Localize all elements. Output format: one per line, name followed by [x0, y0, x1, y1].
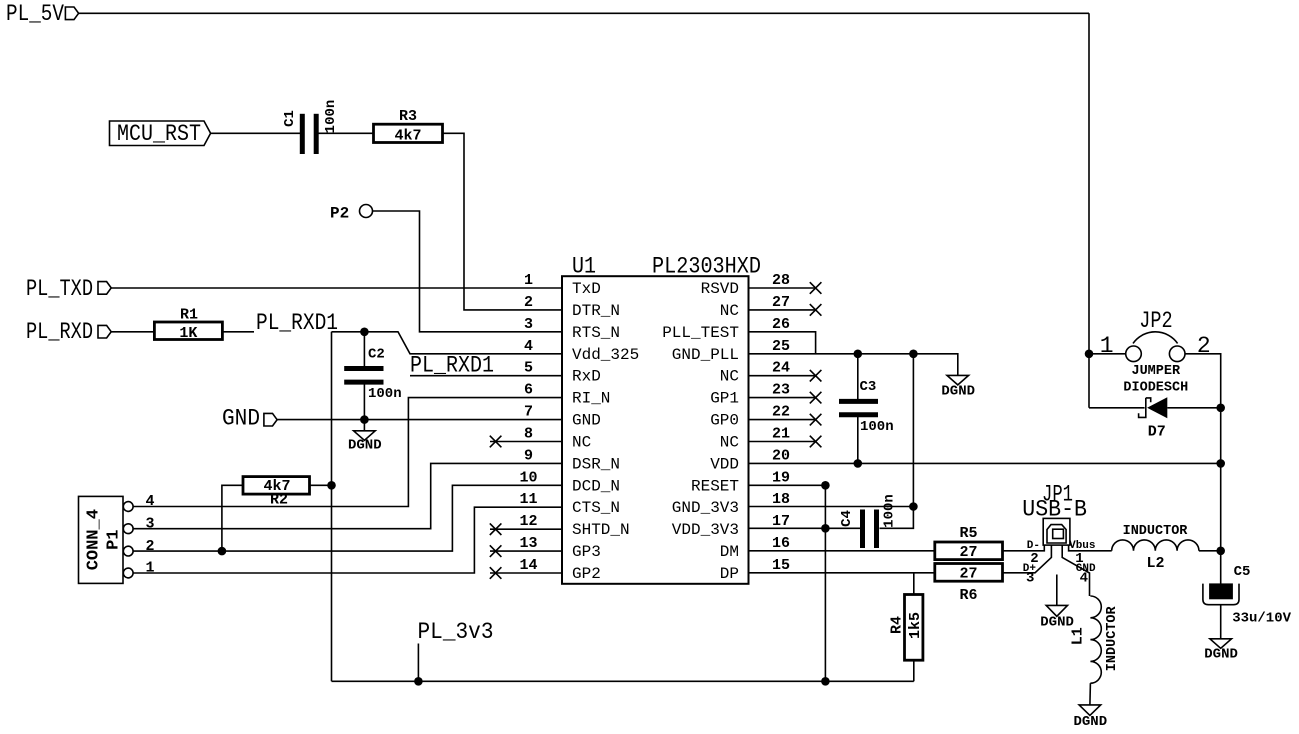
node RESET / 3v3 rail junction	[821, 677, 830, 686]
wire pin 22 stub	[749, 419, 816, 421]
pin P1-1 circle	[123, 568, 133, 578]
svg-text:DSR_N: DSR_N	[572, 455, 620, 473]
svg-text:PL_3v3: PL_3v3	[418, 619, 494, 645]
svg-text:GP3: GP3	[572, 543, 601, 561]
net flag GND	[222, 406, 277, 432]
wire pin 23 stub	[749, 397, 816, 399]
wire USB GND pin skirt	[1062, 545, 1089, 596]
node C3 top junction	[854, 350, 863, 359]
resistor R3	[374, 108, 443, 145]
svg-text:PL_RXD: PL_RXD	[26, 319, 93, 345]
svg-text:GND_PLL: GND_PLL	[672, 346, 739, 364]
svg-text:TxD: TxD	[572, 280, 601, 298]
inductor L1	[1070, 596, 1120, 683]
svg-text:C3: C3	[860, 379, 877, 395]
node PL_5V / JP2 pin1 junction	[1085, 350, 1094, 359]
svg-text:R6: R6	[959, 587, 977, 604]
wire L1 to DGND	[1089, 683, 1092, 705]
connector P1 CONN_4	[79, 496, 124, 583]
svg-text:NC: NC	[572, 434, 591, 452]
no-connect X pin 8	[490, 436, 502, 448]
wire PL_5V horizontal top	[79, 12, 1089, 14]
wire pin 24 stub	[749, 375, 816, 377]
svg-text:DGND: DGND	[348, 437, 382, 453]
wire bottom 3v3 rail	[332, 680, 914, 682]
capacitor C3	[839, 354, 894, 464]
svg-text:DIODESCH: DIODESCH	[1123, 380, 1188, 395]
net flag PL_TXD	[26, 276, 111, 302]
capacitor C4	[839, 494, 898, 548]
connector JP1 USB-B	[1022, 482, 1087, 546]
svg-text:R2: R2	[270, 492, 288, 509]
svg-text:23: 23	[772, 382, 790, 399]
wire R1 stub	[222, 331, 254, 333]
svg-text:14: 14	[519, 557, 537, 574]
wire RESET vertical to 3v3 rail	[824, 485, 826, 681]
ground DGND (GND_PLL)	[941, 375, 975, 399]
node C3 bottom junction	[854, 459, 863, 468]
capacitor C1	[282, 100, 339, 154]
svg-text:1k5: 1k5	[907, 612, 924, 639]
svg-text:5: 5	[524, 360, 533, 377]
wire pin 26 PLL_TEST to pin 25	[749, 332, 816, 354]
svg-text:7: 7	[524, 404, 533, 421]
inductor L2	[1112, 524, 1199, 572]
svg-text:D7: D7	[1148, 424, 1166, 441]
wire GND vertical to C4 right plate	[880, 354, 914, 529]
wire GND to U1 pin7	[277, 419, 562, 421]
wire R5 to USB D-	[1003, 545, 1045, 551]
svg-text:CONN_4: CONN_4	[84, 509, 103, 570]
ground DGND (C5)	[1204, 639, 1238, 663]
resistor R4	[889, 573, 924, 682]
svg-text:16: 16	[772, 535, 790, 552]
svg-text:RSVD: RSVD	[701, 280, 739, 298]
wire PL_3v3 net: vertical and Vdd_325 feed	[331, 332, 333, 682]
svg-text:22: 22	[772, 404, 790, 421]
wire pin 25 GND_PLL to DGND	[749, 354, 958, 376]
wire pin 14 NC stub	[490, 572, 562, 574]
node PL_3v3 junction	[414, 677, 423, 686]
wire P1 pin4 to U1 pin6	[133, 398, 562, 507]
svg-text:15: 15	[772, 557, 790, 574]
wire P1 pin3 to U1 pin9	[133, 463, 562, 528]
node D7 / right vertical junction	[1216, 404, 1225, 413]
net flag PL_5V	[6, 1, 79, 27]
svg-text:RxD: RxD	[572, 368, 601, 386]
node RESET / pin17 junction	[821, 524, 830, 533]
resistor R5	[935, 525, 1003, 561]
svg-text:JP2: JP2	[1139, 308, 1172, 334]
wire P1 pin2 to U1 pin10	[133, 485, 562, 551]
svg-text:2: 2	[145, 538, 154, 555]
svg-text:C1: C1	[282, 110, 298, 127]
svg-text:4k7: 4k7	[394, 128, 421, 145]
svg-text:1: 1	[524, 272, 533, 289]
wire PL_RXD1 to U1 pin5	[410, 375, 562, 377]
svg-text:PL_5V: PL_5V	[6, 1, 64, 27]
no-connect X pin 21	[810, 436, 822, 448]
svg-text:4: 4	[145, 493, 154, 510]
svg-text:DGND: DGND	[1073, 714, 1107, 730]
svg-text:PL_RXD1: PL_RXD1	[410, 353, 494, 379]
svg-text:100n: 100n	[860, 419, 894, 435]
svg-text:13: 13	[519, 535, 537, 552]
node C2 top junction	[360, 328, 369, 337]
wire Vdd_325 horizontal to U1 pin4	[332, 332, 563, 354]
no-connect X pin 22	[810, 414, 822, 426]
svg-text:RTS_N: RTS_N	[572, 324, 620, 342]
node L2 / C5 junction	[1216, 547, 1225, 556]
wire JP2 pin1	[1089, 353, 1126, 355]
svg-text:8: 8	[524, 426, 533, 443]
diode D7 (schottky)	[1139, 397, 1168, 440]
svg-text:12: 12	[519, 513, 537, 530]
svg-text:2: 2	[524, 294, 533, 311]
svg-text:GND: GND	[572, 412, 601, 430]
node R2 lower junction	[218, 547, 227, 556]
svg-text:L2: L2	[1146, 555, 1164, 572]
svg-text:9: 9	[524, 447, 533, 464]
svg-text:R1: R1	[180, 307, 198, 324]
svg-text:CTS_N: CTS_N	[572, 499, 620, 517]
wire D7 anode feed	[1089, 407, 1145, 409]
svg-text:2: 2	[1197, 333, 1211, 359]
svg-text:GP2: GP2	[572, 565, 601, 583]
capacitor C2	[344, 332, 401, 420]
wire C5 to DGND	[1220, 605, 1222, 639]
svg-text:JUMPER: JUMPER	[1131, 364, 1181, 379]
svg-text:21: 21	[772, 426, 790, 443]
wire L2 to right vertical	[1199, 550, 1221, 552]
svg-text:L1: L1	[1070, 627, 1087, 645]
wire pin 18 GND_3V3	[749, 506, 914, 508]
wire pin 28 stub	[749, 287, 816, 289]
pin P2	[330, 205, 373, 223]
svg-text:C2: C2	[368, 347, 385, 363]
no-connect X pin 23	[810, 392, 822, 404]
node R2 / 3v3 junction	[327, 481, 336, 490]
svg-text:R5: R5	[959, 525, 977, 542]
wire R6 to USB D+	[1003, 545, 1052, 573]
svg-text:INDUCTOR: INDUCTOR	[1105, 605, 1120, 671]
svg-text:33u/10V: 33u/10V	[1232, 610, 1291, 626]
svg-text:PL_RXD1: PL_RXD1	[256, 310, 338, 336]
svg-text:SHTD_N: SHTD_N	[572, 521, 630, 539]
ground DGND (USB shield)	[1040, 605, 1074, 630]
svg-text:DTR_N: DTR_N	[572, 302, 620, 320]
wire R3 to U1 pin2	[443, 133, 563, 310]
node GND vertical top junction	[909, 350, 918, 359]
ground DGND (L1)	[1073, 705, 1107, 730]
svg-text:4: 4	[1080, 570, 1088, 586]
capacitor C5 (polarized)	[1203, 564, 1292, 626]
resistor R2	[222, 477, 332, 551]
net flag PL_RXD	[26, 319, 111, 345]
svg-text:6: 6	[524, 382, 533, 399]
svg-text:VDD_3V3: VDD_3V3	[672, 521, 739, 539]
node GND / pin18 junction	[909, 502, 918, 511]
svg-text:MCU_RST: MCU_RST	[117, 121, 201, 147]
svg-text:RESET: RESET	[691, 477, 739, 495]
svg-text:1K: 1K	[179, 325, 197, 342]
svg-text:25: 25	[772, 338, 790, 355]
svg-text:Vdd_325: Vdd_325	[572, 346, 639, 364]
svg-text:26: 26	[772, 316, 790, 333]
svg-text:P1: P1	[105, 529, 124, 549]
svg-text:19: 19	[772, 469, 790, 486]
wire pin 12 NC stub	[490, 528, 562, 530]
svg-text:DM: DM	[720, 543, 739, 561]
svg-text:10: 10	[519, 469, 537, 486]
no-connect X pin 14	[490, 567, 502, 579]
svg-text:20: 20	[772, 447, 790, 464]
wire USB shield stub	[1056, 575, 1058, 606]
svg-text:27: 27	[772, 294, 790, 311]
svg-text:3: 3	[145, 515, 154, 532]
svg-text:24: 24	[772, 360, 790, 377]
svg-text:NC: NC	[720, 368, 739, 386]
svg-text:INDUCTOR: INDUCTOR	[1123, 524, 1189, 539]
svg-text:GND_3V3: GND_3V3	[672, 499, 739, 517]
svg-text:C5: C5	[1234, 564, 1251, 580]
svg-text:DP: DP	[720, 565, 739, 583]
no-connect X pin 13	[490, 545, 502, 557]
wire pin 8 NC stub	[490, 441, 562, 443]
ground DGND (under C2)	[348, 420, 382, 454]
svg-text:1: 1	[1100, 333, 1114, 359]
no-connect X pin 27	[810, 304, 822, 316]
pin P1-2 circle	[123, 546, 133, 556]
svg-text:NC: NC	[720, 434, 739, 452]
no-connect X pin 12	[490, 523, 502, 535]
wire PL_3v3 stub	[417, 644, 419, 682]
svg-text:3: 3	[1026, 570, 1034, 586]
wire MCU_RST to C1	[211, 132, 300, 134]
wire P1 pin1 to U1 pin11	[133, 507, 562, 573]
svg-text:100n: 100n	[323, 100, 339, 134]
wire D7 cathode side	[1167, 407, 1220, 409]
svg-text:GP1: GP1	[710, 390, 739, 408]
wire P2 to U1 pin3	[373, 211, 563, 332]
no-connect X pin 24	[810, 370, 822, 382]
pin P1-3 circle	[123, 524, 133, 534]
wire USB Vbus pin	[1069, 545, 1112, 551]
wire pin 16 DM to R5	[749, 550, 935, 552]
wire PL_RXD to R1	[111, 331, 154, 333]
wire pin 15 DP to R6	[749, 572, 935, 574]
no-connect X pin 28	[810, 282, 822, 294]
resistor R6	[935, 564, 1003, 605]
svg-text:P2: P2	[330, 205, 349, 223]
wire pin 21 stub	[749, 441, 816, 443]
pin P1-4 circle	[123, 502, 133, 512]
svg-text:100n: 100n	[368, 386, 402, 402]
wire pin 27 stub	[749, 309, 816, 311]
resistor R1	[154, 307, 222, 342]
svg-text:18: 18	[772, 491, 790, 508]
net flag MCU_RST	[110, 121, 211, 147]
svg-text:DGND: DGND	[1204, 646, 1238, 662]
node VDD / right vertical junction	[1216, 459, 1225, 468]
node C2 bottom junction	[360, 415, 369, 424]
wire pin 13 NC stub	[490, 550, 562, 552]
svg-text:GND: GND	[222, 406, 260, 432]
svg-text:PLL_TEST: PLL_TEST	[662, 324, 739, 342]
op-amp U1 chip body PL2303HXD	[562, 253, 761, 583]
wire pin 19 RESET	[749, 484, 826, 486]
svg-text:100n: 100n	[882, 494, 898, 528]
svg-text:U1: U1	[572, 253, 596, 279]
wire pin 17 VDD_3V3 to C4	[749, 527, 861, 529]
svg-text:1: 1	[145, 560, 154, 577]
svg-text:DCD_N: DCD_N	[572, 477, 620, 495]
svg-text:R4: R4	[889, 616, 906, 634]
svg-text:27: 27	[959, 544, 977, 561]
wire PL_5V vertical to D7	[1088, 13, 1090, 408]
svg-text:PL_TXD: PL_TXD	[26, 276, 93, 302]
wire PL_TXD to U1 pin1	[111, 287, 562, 289]
svg-text:R3: R3	[399, 108, 417, 125]
wire JP2 pin2 to right vertical	[1185, 354, 1221, 584]
svg-text:DGND: DGND	[941, 384, 975, 400]
svg-text:4: 4	[524, 338, 533, 355]
node RESET junction	[821, 481, 830, 490]
svg-text:28: 28	[772, 272, 790, 289]
jumper JP2	[1100, 308, 1211, 395]
svg-text:GP0: GP0	[710, 412, 739, 430]
svg-text:RI_N: RI_N	[572, 390, 610, 408]
svg-text:C4: C4	[839, 510, 855, 527]
svg-text:NC: NC	[720, 302, 739, 320]
svg-text:27: 27	[959, 566, 977, 583]
svg-text:PL2303HXD: PL2303HXD	[652, 253, 761, 279]
wire C1 to R3	[319, 132, 374, 134]
svg-text:VDD: VDD	[710, 455, 739, 473]
svg-text:11: 11	[519, 491, 537, 508]
wire pin 20 VDD rail	[749, 462, 1221, 464]
svg-text:3: 3	[524, 316, 533, 333]
